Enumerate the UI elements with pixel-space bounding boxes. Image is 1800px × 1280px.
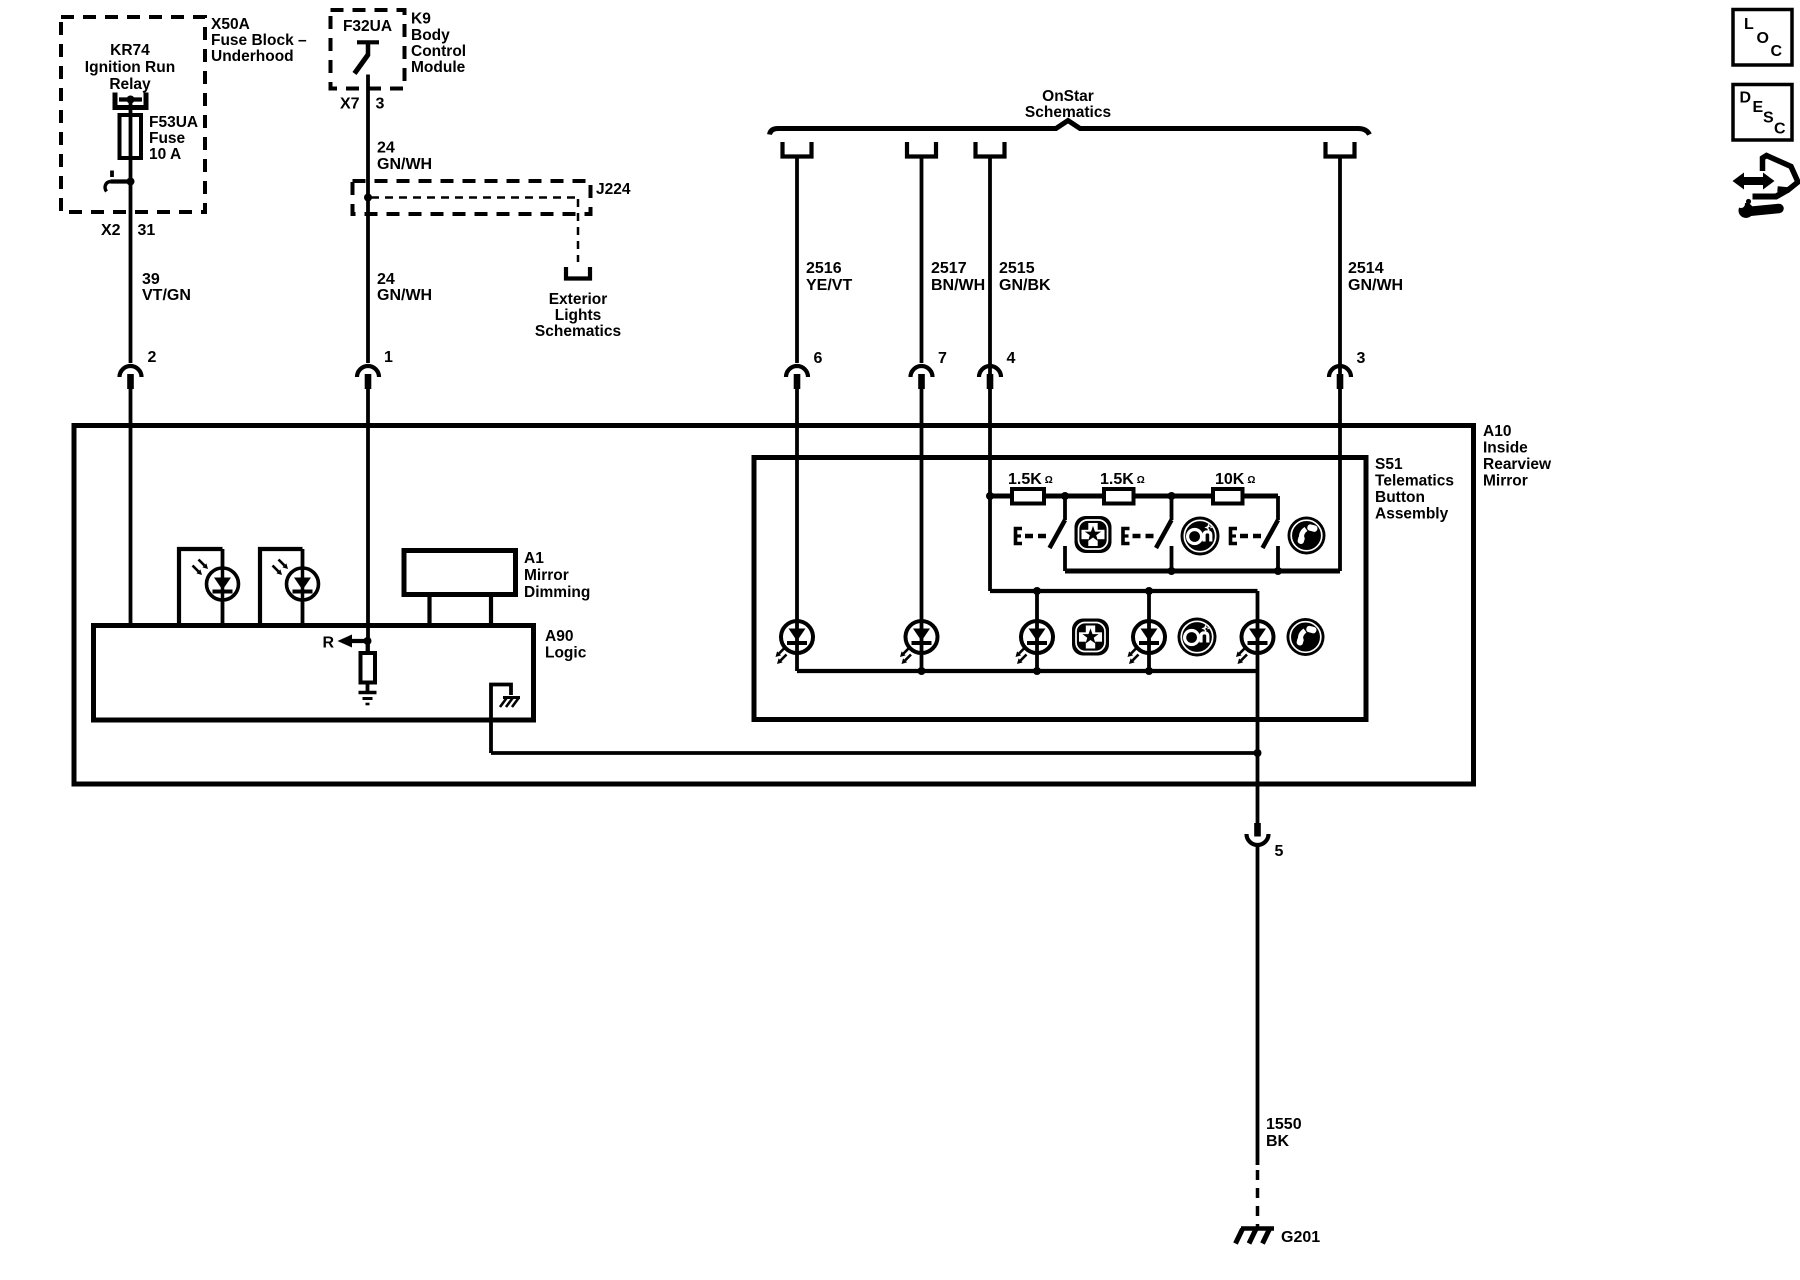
svg-text:4: 4 bbox=[1007, 350, 1016, 367]
svg-text:X50A: X50A bbox=[211, 16, 250, 33]
svg-text:Button: Button bbox=[1375, 489, 1425, 506]
svg-text:E: E bbox=[1753, 99, 1764, 116]
svg-text:L: L bbox=[1744, 16, 1754, 33]
svg-text:Mirror: Mirror bbox=[1483, 473, 1528, 490]
svg-text:KR74: KR74 bbox=[110, 42, 150, 59]
svg-text:GN/WH: GN/WH bbox=[377, 156, 432, 173]
svg-text:GN/BK: GN/BK bbox=[999, 277, 1051, 294]
svg-text:Rearview: Rearview bbox=[1483, 456, 1552, 473]
svg-text:Logic: Logic bbox=[545, 645, 587, 662]
svg-text:YE/VT: YE/VT bbox=[806, 277, 852, 294]
svg-text:GN/WH: GN/WH bbox=[377, 287, 432, 304]
svg-text:C: C bbox=[1771, 43, 1783, 60]
svg-text:A1: A1 bbox=[524, 550, 544, 567]
svg-text:5: 5 bbox=[1275, 843, 1284, 860]
svg-text:Lights: Lights bbox=[555, 307, 602, 324]
svg-text:O: O bbox=[1757, 30, 1769, 47]
svg-text:Dimming: Dimming bbox=[524, 584, 590, 601]
svg-text:Control: Control bbox=[411, 43, 466, 60]
svg-text:R: R bbox=[322, 635, 334, 652]
svg-text:Telematics: Telematics bbox=[1375, 473, 1454, 490]
svg-text:Schematics: Schematics bbox=[535, 323, 621, 340]
svg-text:OnStar: OnStar bbox=[1042, 88, 1094, 105]
svg-text:BK: BK bbox=[1266, 1133, 1290, 1150]
svg-text:Body: Body bbox=[411, 27, 450, 44]
svg-text:G201: G201 bbox=[1281, 1229, 1320, 1246]
svg-text:Fuse Block –: Fuse Block – bbox=[211, 32, 307, 49]
svg-text:1550: 1550 bbox=[1266, 1116, 1302, 1133]
svg-text:2517: 2517 bbox=[931, 260, 967, 277]
svg-text:S51: S51 bbox=[1375, 456, 1403, 473]
svg-text:A90: A90 bbox=[545, 628, 573, 645]
svg-text:3: 3 bbox=[376, 96, 385, 113]
svg-text:Exterior: Exterior bbox=[549, 291, 608, 308]
svg-text:Ignition Run: Ignition Run bbox=[85, 59, 175, 76]
svg-text:Relay: Relay bbox=[109, 76, 151, 93]
svg-text:Module: Module bbox=[411, 59, 466, 76]
svg-text:Mirror: Mirror bbox=[524, 567, 569, 584]
svg-text:2515: 2515 bbox=[999, 260, 1035, 277]
svg-text:6: 6 bbox=[814, 350, 823, 367]
svg-text:3: 3 bbox=[1357, 350, 1366, 367]
svg-text:24: 24 bbox=[377, 140, 395, 157]
svg-text:31: 31 bbox=[138, 222, 156, 239]
svg-text:24: 24 bbox=[377, 271, 395, 288]
svg-text:X2: X2 bbox=[101, 222, 121, 239]
svg-text:2: 2 bbox=[148, 349, 157, 366]
svg-text:D: D bbox=[1740, 90, 1752, 107]
svg-text:C: C bbox=[1774, 121, 1786, 138]
svg-text:F32UA: F32UA bbox=[343, 18, 392, 35]
svg-text:Fuse: Fuse bbox=[149, 130, 186, 147]
svg-text:X7: X7 bbox=[340, 96, 360, 113]
svg-text:Inside: Inside bbox=[1483, 440, 1528, 457]
svg-text:GN/WH: GN/WH bbox=[1348, 277, 1403, 294]
svg-text:2516: 2516 bbox=[806, 260, 842, 277]
svg-text:S: S bbox=[1763, 110, 1774, 127]
svg-text:J224: J224 bbox=[596, 181, 631, 198]
svg-text:39: 39 bbox=[142, 271, 160, 288]
svg-text:1: 1 bbox=[384, 349, 393, 366]
svg-text:Assembly: Assembly bbox=[1375, 506, 1449, 523]
svg-text:7: 7 bbox=[938, 350, 947, 367]
svg-text:A10: A10 bbox=[1483, 423, 1511, 440]
svg-text:2514: 2514 bbox=[1348, 260, 1384, 277]
svg-text:VT/GN: VT/GN bbox=[142, 287, 191, 304]
svg-text:BN/WH: BN/WH bbox=[931, 277, 985, 294]
svg-text:F53UA: F53UA bbox=[149, 114, 198, 131]
svg-text:Underhood: Underhood bbox=[211, 48, 294, 65]
svg-text:10 A: 10 A bbox=[149, 146, 181, 163]
svg-text:K9: K9 bbox=[411, 11, 431, 28]
